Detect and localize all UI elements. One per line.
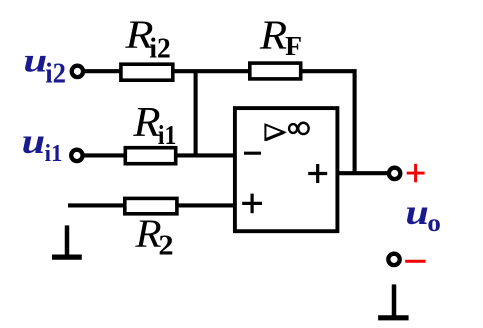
ground (bottom right, at output minus) [392, 284, 397, 317]
wire: ui1 terminal to Ri1 [84, 153, 126, 157]
ground (left, at R2 input) [65, 225, 70, 257]
svg-text:o: o [427, 210, 441, 237]
svg-text:i2: i2 [45, 57, 66, 89]
wire: vertical RF feedback drop to output node [353, 69, 357, 175]
op-amp inverting input minus label [244, 152, 261, 155]
wire: R2 to op-amp noninverting input [176, 203, 234, 207]
wire: ui2 terminal to Ri2 [84, 69, 122, 73]
wire: op-amp output to + terminal [338, 171, 388, 175]
svg-text:2: 2 [158, 231, 173, 262]
output polarity plus (red) [407, 172, 425, 175]
op-amp infinity symbol [289, 124, 297, 133]
wire: ground end to R2 [68, 203, 126, 207]
svg-text:F: F [285, 31, 302, 61]
svg-text:u: u [23, 42, 47, 79]
terminal output plus [389, 168, 400, 179]
terminal ui1 [71, 150, 82, 161]
output polarity minus (red) [405, 260, 425, 263]
svg-text:R: R [132, 100, 160, 146]
svg-text:u: u [405, 192, 429, 232]
op-amp output plus label [308, 172, 327, 175]
op-amp gain triangle [265, 125, 284, 140]
wire: Ri2 to RF (top net) [172, 69, 250, 73]
wire: RF right to corner [300, 69, 357, 73]
wire: Ri1 to op-amp inverting input [175, 153, 234, 157]
op-amp U1 box [235, 108, 338, 231]
svg-text:i2: i2 [149, 33, 170, 65]
resistor Ri1 [125, 148, 175, 164]
wire: vertical junction from top net to inverting input net [194, 71, 198, 155]
op-amp noninverting input plus label [242, 202, 262, 205]
svg-text:i1: i1 [45, 140, 63, 167]
svg-text:R: R [259, 11, 287, 57]
resistor R2 [125, 198, 177, 213]
svg-text:i1: i1 [158, 120, 177, 150]
terminal output minus [388, 254, 399, 265]
resistor RF [250, 63, 301, 79]
resistor Ri2 [121, 64, 173, 80]
terminal ui2 [72, 66, 83, 77]
svg-text:u: u [22, 121, 45, 161]
